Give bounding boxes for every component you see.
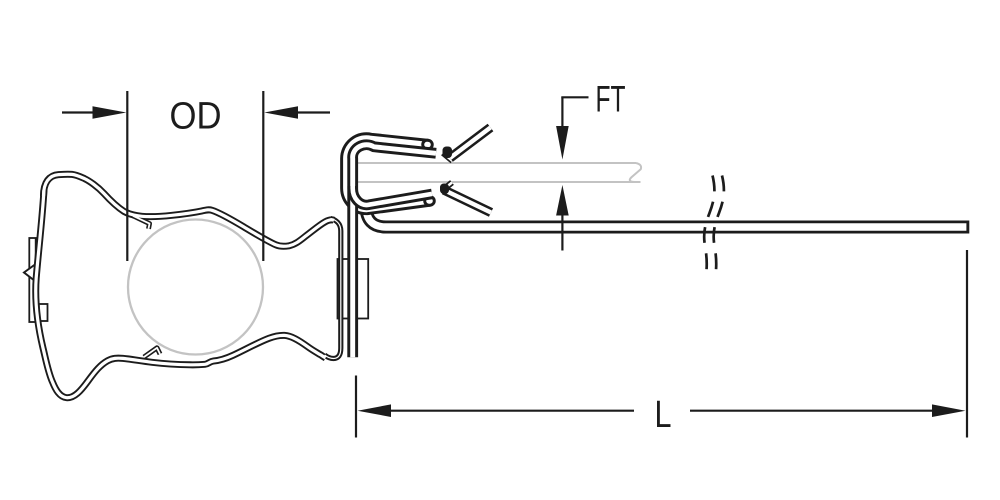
svg-text:L: L: [655, 394, 672, 436]
svg-text:FT: FT: [596, 78, 626, 119]
svg-text:OD: OD: [170, 95, 222, 137]
